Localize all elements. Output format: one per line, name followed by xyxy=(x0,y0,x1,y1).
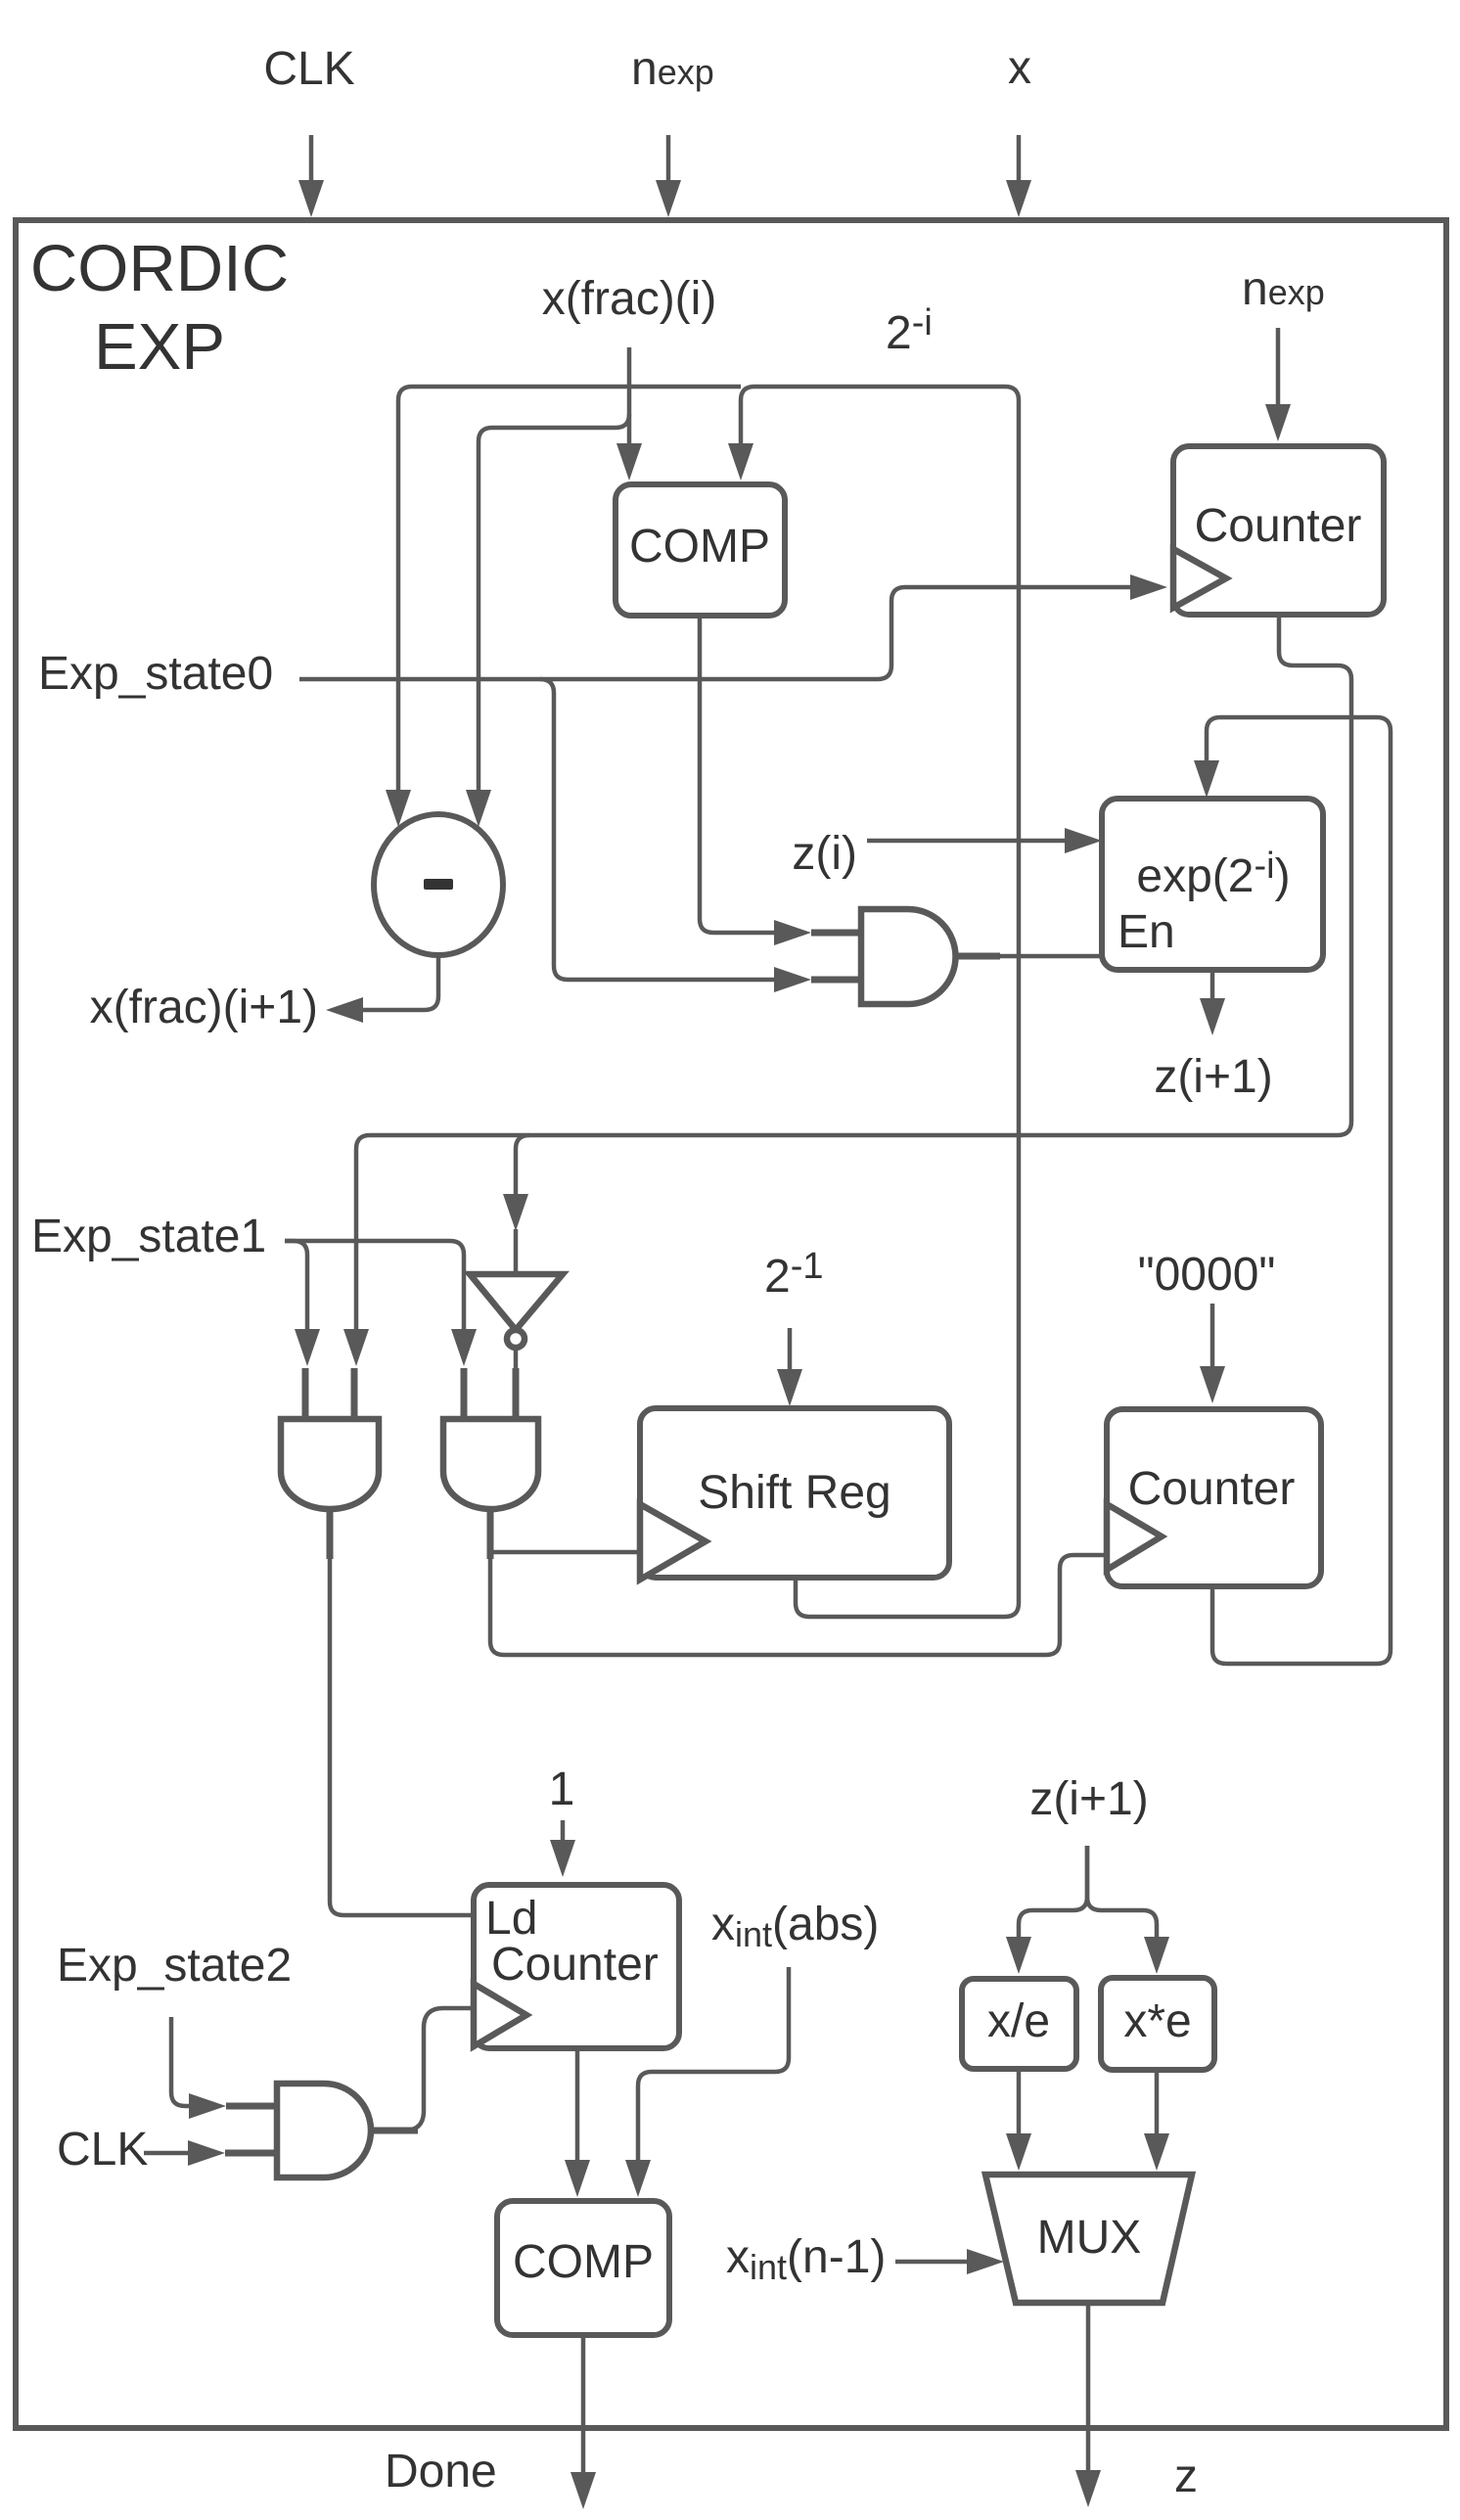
wire branch to inverter input xyxy=(516,1135,529,1196)
wire Exp_state1 to AND U3 input 1 xyxy=(285,1241,464,1331)
wire AND U2 output to Ld Counter xyxy=(330,1556,474,1915)
wire Exp_state2 to AND U4 input 1 xyxy=(171,2017,191,2106)
svg-text:CLK: CLK xyxy=(263,43,354,95)
svg-text:Exp_state2: Exp_state2 xyxy=(57,1940,292,1992)
wire n_exp input arrow xyxy=(666,135,671,182)
wire Ld Counter output to COMP2 input 1 xyxy=(575,2048,580,2162)
wire constant 1 to Ld Counter xyxy=(561,1820,566,1842)
wire Exp_state1 to AND U2 input 1 xyxy=(285,1241,307,1331)
svg-text:nexp: nexp xyxy=(631,43,714,95)
svg-text:Exp_state1: Exp_state1 xyxy=(31,1211,266,1262)
block Ld Counter xyxy=(474,1885,679,2048)
svg-text:xint(abs): xint(abs) xyxy=(711,1899,879,1954)
block exp(2^-i) LUT xyxy=(1102,799,1323,970)
wire Exp_state0 to Counter clk xyxy=(299,587,1132,679)
svg-text:x(frac)(i): x(frac)(i) xyxy=(542,273,717,325)
wire CLK to AND U4 input 2 xyxy=(144,2151,190,2156)
inverter NOT gate xyxy=(470,1274,563,1348)
subtractor node xyxy=(374,814,503,955)
wire x(frac)(i) to COMP input 1 xyxy=(627,347,632,445)
svg-text:x: x xyxy=(1008,42,1031,94)
wire x(frac)(i) branch to subtractor input B xyxy=(479,414,629,792)
wire AND U3 output to Shift Reg clk xyxy=(490,1550,640,1555)
block COMP comparator 2 xyxy=(497,2201,669,2335)
svg-text:En: En xyxy=(1118,906,1175,958)
block COMP comparator 1 xyxy=(616,484,785,616)
svg-text:x(frac)(i+1): x(frac)(i+1) xyxy=(90,982,318,1033)
wire AND U1 output to exp block En xyxy=(956,954,1102,959)
svg-text:z: z xyxy=(1174,2451,1198,2502)
svg-text:MUX: MUX xyxy=(1037,2212,1142,2264)
block x/e xyxy=(962,1979,1076,2069)
svg-text:Shift Reg: Shift Reg xyxy=(698,1467,890,1519)
svg-text:x*e: x*e xyxy=(1123,1995,1191,2047)
wire Counter2 output up to exp block top input xyxy=(1207,717,1391,1664)
wire subtractor output to x(frac)(i+1) xyxy=(361,955,438,1010)
svg-text:COMP: COMP xyxy=(513,2236,654,2288)
wire constant 0000 to Counter2 xyxy=(1210,1304,1215,1368)
wire z(i) to exp block xyxy=(867,839,1067,844)
svg-text:Ld: Ld xyxy=(485,1893,537,1945)
svg-text:2-i: 2-i xyxy=(886,302,933,359)
wire MUX output to z xyxy=(1086,2303,1091,2472)
svg-text:Exp_state0: Exp_state0 xyxy=(38,648,273,700)
wire x*e output to MUX xyxy=(1155,2070,1160,2135)
svg-text:Counter: Counter xyxy=(491,1939,659,1991)
svg-text:z(i): z(i) xyxy=(792,828,857,880)
wire x/e output to MUX xyxy=(1017,2069,1022,2135)
wire z(i+1) to x/e xyxy=(1019,1846,1087,1939)
svg-text:Counter: Counter xyxy=(1195,500,1362,552)
svg-text:Counter: Counter xyxy=(1128,1463,1296,1515)
wire inverter input stub xyxy=(514,1229,519,1274)
wire exp block output to z(i+1) xyxy=(1210,970,1215,1000)
block Shift Reg xyxy=(640,1408,949,1578)
and-gate U1 (z(i) enable) xyxy=(811,909,1000,1004)
block MUX xyxy=(985,2175,1192,2303)
clock pin Counter2 xyxy=(1107,1504,1162,1570)
wire AND U4 output to Ld Counter clk xyxy=(371,2008,474,2131)
svg-text:CLK: CLK xyxy=(57,2124,148,2176)
wire constant 2^-1 to Shift Reg xyxy=(788,1328,793,1371)
block Counter (top) xyxy=(1173,446,1384,615)
svg-text:x/e: x/e xyxy=(987,1995,1050,2047)
svg-text:2-1: 2-1 xyxy=(764,1246,824,1303)
svg-text:nexp: nexp xyxy=(1242,263,1325,315)
wire x input arrow xyxy=(1017,135,1022,182)
wire 2^-i branch to subtractor input A xyxy=(398,387,741,792)
svg-text:z(i+1): z(i+1) xyxy=(1029,1773,1148,1825)
wire x_int(abs) to COMP2 input 2 xyxy=(638,1967,789,2162)
svg-text:CORDIC: CORDIC xyxy=(30,232,289,305)
wire n_exp to Counter xyxy=(1276,328,1281,406)
wire COMP2 output to Done xyxy=(581,2335,586,2474)
svg-text:xint(n-1): xint(n-1) xyxy=(726,2231,886,2287)
svg-text:z(i+1): z(i+1) xyxy=(1154,1051,1272,1103)
wire CLK input arrow xyxy=(309,135,314,182)
svg-text:Done: Done xyxy=(385,2446,497,2497)
and-gate U3 (Exp_state1 and not, vertical) xyxy=(443,1368,538,1559)
clock pin Shift Reg xyxy=(640,1504,706,1580)
svg-text:COMP: COMP xyxy=(629,521,770,573)
wire AND U3 output to Counter2 clk xyxy=(490,1555,1107,1655)
wire x_int(n-1) to MUX select xyxy=(895,2260,969,2265)
block Counter2 (bottom right) xyxy=(1107,1409,1321,1586)
clock pin Ld Counter xyxy=(474,1984,526,2046)
svg-text:1: 1 xyxy=(549,1764,575,1815)
svg-text:EXP: EXP xyxy=(94,310,225,384)
and-gate U4 (Exp_state2 and CLK) xyxy=(225,2084,418,2177)
wire z(i+1) to x*e xyxy=(1087,1846,1157,1939)
svg-text:"0000": "0000" xyxy=(1138,1249,1276,1301)
wire Exp_state0 branch to AND U1 input 2 xyxy=(540,679,776,980)
wire COMP output to AND U1 input 1 xyxy=(700,616,776,933)
wire Counter output down-left to AND U2 input 2 xyxy=(356,615,1351,1331)
and-gate U2 (Exp_state1 gating, vertical) xyxy=(281,1368,379,1559)
clock pin Counter (top) xyxy=(1173,549,1226,608)
block x*e xyxy=(1101,1978,1214,2070)
wire inverter output to AND U3 input 2 xyxy=(514,1348,519,1380)
wire 2^-i feedback: Shift Reg out up to COMP input 2 xyxy=(741,387,1019,1617)
